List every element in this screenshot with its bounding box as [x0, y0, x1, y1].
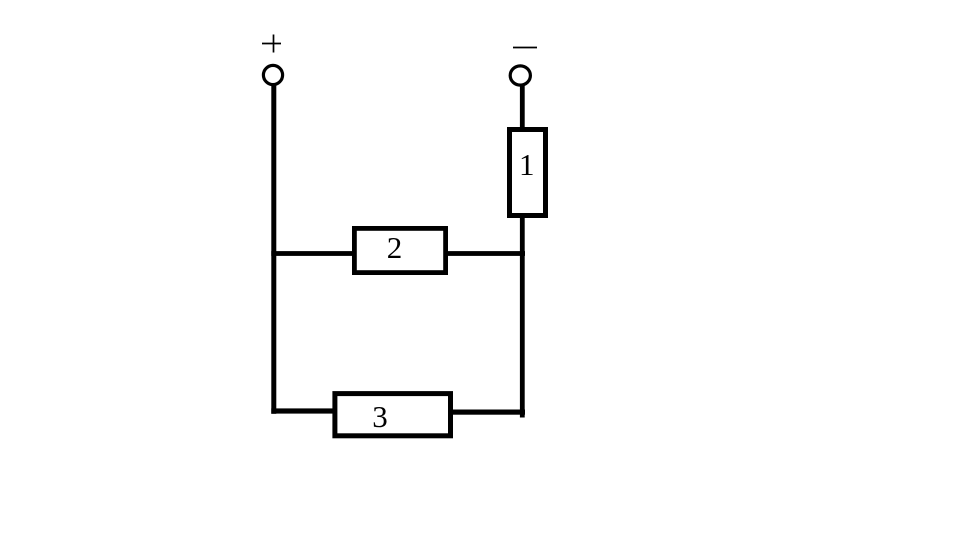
- resistor R2: [354, 228, 445, 272]
- svg-text:1: 1: [519, 147, 535, 182]
- wire: left horizontal to resistor 2: [271, 251, 353, 256]
- wire: resistor 3 to right vertical: [450, 410, 525, 415]
- wire: from minus terminal down to resistor 1: [520, 86, 525, 129]
- resistor R3: [335, 394, 451, 436]
- svg-text:3: 3: [372, 399, 388, 434]
- wire: left vertical from plus terminal down: [271, 85, 276, 414]
- wire: resistor 2 to right vertical: [447, 251, 525, 256]
- minus terminal circle: [510, 66, 530, 85]
- resistor R1: [510, 130, 546, 216]
- plus terminal circle: [263, 65, 282, 84]
- svg-text:2: 2: [387, 230, 403, 265]
- wire: below resistor 1 down to bottom node: [520, 216, 525, 418]
- wire: bottom left horizontal to resistor 3: [271, 408, 336, 413]
- minus terminal label: [513, 47, 537, 49]
- plus terminal label: [262, 35, 281, 53]
